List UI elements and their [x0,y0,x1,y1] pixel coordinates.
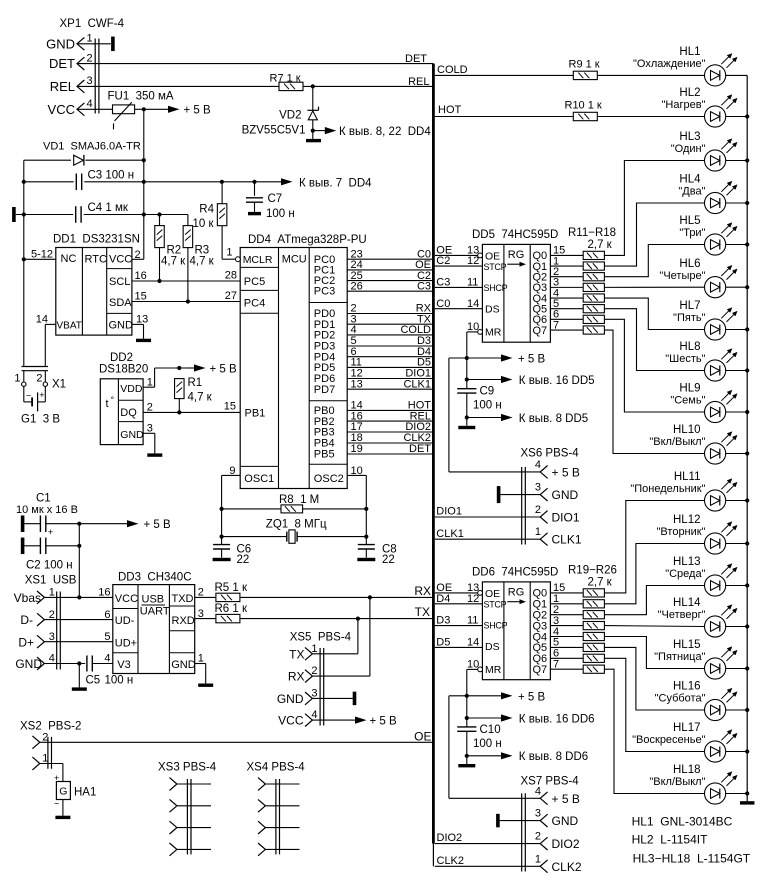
wire R15 to HL7 [604,298,704,329]
wire net OE bus to DD5 pin 13 [435,245,483,258]
wire HL15 to right rail [726,668,748,670]
wire R21 to HL13 [604,586,704,615]
svg-text:1: 1 [226,247,232,259]
wire DD4 pin 11 net D5 to bus [347,357,433,369]
wire net DIO2 bus to XS7 [435,832,540,844]
LED HL8 Шесть [665,341,736,381]
svg-text:HL3−HL18 L-1154GT: HL3−HL18 L-1154GT [633,852,751,866]
label C1 [16,493,78,517]
label DD3 pin5 [104,631,110,643]
svg-text:19: 19 [351,443,363,455]
ground bar C8 [357,558,375,561]
wire HL10 to right rail [726,453,748,455]
svg-text:2,7 к: 2,7 к [588,577,613,589]
svg-text:XP1 CWF-4: XP1 CWF-4 [60,18,125,30]
wire DD4 pin 17 net DIO2 to bus [347,421,433,433]
wire XS1 GND [44,661,85,665]
wire DD4 pin 3 net TX to bus [347,313,433,325]
power +5 В arrow (XS5) [352,716,397,728]
svg-text:R10 1 к: R10 1 к [565,99,602,111]
wire DD6 Q2 pin 2 [533,604,584,622]
wire XP1 VCC to fuse [77,108,113,110]
resistor R11 2,7 к [583,251,604,259]
capacitor C10 100 н [457,724,502,750]
LED HL11 Понедельник [630,471,736,511]
wire net C2 bus to DD5 pin 12 [435,255,483,267]
svg-text:TX: TX [289,647,304,661]
svg-text:R1: R1 [188,377,203,389]
ground bar XS5 [353,692,357,706]
wire net D3 bus to DD6 pin 11 [435,615,483,627]
ground bar C6 [213,558,231,561]
connector XS6 PBS-4 [521,447,582,546]
label R11-R18 [568,227,616,251]
svg-text:STCP: STCP [484,262,507,272]
svg-text:TXD: TXD [172,593,194,605]
common bar left of C2 [21,538,25,555]
wire DD1 pin 5-12 [24,248,56,260]
wire HL2 to right rail [726,116,748,118]
wire XS6 GND [500,494,540,496]
svg-text:HL10: HL10 [673,424,701,436]
svg-text:HL11: HL11 [674,471,701,483]
svg-text:GND: GND [46,36,75,51]
svg-text:+ 5 В: + 5 В [144,519,172,531]
wire R16 to HL8 [604,309,704,371]
svg-text:OE: OE [485,250,500,262]
svg-text:+ 5 В: + 5 В [518,354,546,366]
LED HL3 Один [671,131,737,171]
wire net RX to bus [240,584,434,600]
LED HL14 Четверг [658,597,737,637]
svg-text:2: 2 [147,402,153,414]
svg-text:PC4: PC4 [244,298,265,310]
svg-text:PB5: PB5 [314,449,335,461]
svg-text:HL17: HL17 [673,722,701,734]
svg-text:+ 5 В: + 5 В [184,105,212,117]
power tap К выв. 8, 22 DD4 [313,126,432,138]
svg-text:"Среда": "Среда" [665,568,705,580]
resistor R22 2,7 к [583,622,604,630]
svg-text:4: 4 [311,709,317,721]
svg-text:SCL: SCL [109,276,130,288]
svg-text:MR: MR [485,664,502,676]
wire R10 to HL2 [597,116,705,118]
wire HL11 to right rail [726,500,748,502]
svg-text:SHCP: SHCP [484,283,508,293]
LED HL2 Нагрев [662,87,737,127]
connector XS5 PBS-4 [277,632,352,728]
resistor R9 1 к [569,58,600,79]
svg-text:DET: DET [49,56,75,71]
IC DD6 74HC595D [472,567,558,680]
wire net REL left [77,85,281,87]
svg-text:C2 100 н: C2 100 н [26,560,73,572]
capacitor C8 22 [358,544,397,567]
svg-text:UART: UART [140,606,170,618]
wire HL16 to right rail [726,709,748,711]
svg-text:HL1: HL1 [679,46,700,58]
svg-text:+: + [54,773,59,783]
IC DD4 ATmega328P-PU [240,234,366,488]
wire XS1 GND down [78,664,80,688]
wire DD1 GND pin13 [132,314,148,339]
wire XS2 pin1 to HA1 [40,764,63,782]
resistor R23 2,7 к [583,632,604,640]
wire R13 to HL5 [604,245,704,277]
svg-text:12: 12 [467,593,479,605]
ground bar right rail [740,801,755,804]
svg-text:D+: D+ [18,635,34,649]
zener diode VD2 BZV55C5V1 [242,107,319,140]
svg-text:1: 1 [198,653,204,665]
svg-text:−: − [54,798,59,808]
svg-text:C7: C7 [268,193,283,205]
wire XS1 D+ to DD3 UD+ [44,641,112,643]
wire XS7 GND [500,820,541,822]
diode VD1 SMAJ6.0A-TR [43,141,141,166]
svg-text:DS: DS [485,304,500,316]
svg-text:HL7: HL7 [679,300,700,312]
svg-text:C3 100 н: C3 100 н [88,170,135,182]
wire HL13 to right rail [726,585,748,587]
svg-text:DS: DS [485,641,500,653]
svg-text:15: 15 [135,291,147,303]
power +5 В arrow (C1) [126,519,171,531]
svg-text:HL2: HL2 [679,87,700,99]
svg-text:10: 10 [467,321,479,333]
svg-text:VCC: VCC [278,714,304,728]
svg-text:12: 12 [467,255,479,267]
svg-text:C0: C0 [436,298,450,310]
svg-text:R11−R18: R11−R18 [568,227,616,239]
svg-text:CLK2: CLK2 [437,855,465,867]
resistor R18 2,7 к [583,326,604,334]
svg-text:HL1 GNL-3014BC: HL1 GNL-3014BC [632,814,733,828]
tap К выв. 8 DD5 [465,413,588,425]
wire net HOT to R10 [435,104,574,117]
svg-text:C1: C1 [36,493,51,505]
wire net DIO1 bus to XS6 [435,506,540,518]
svg-text:4: 4 [104,653,110,665]
power tap К выв. 7 DD4 [281,177,372,189]
svg-text:"Воскресенье": "Воскресенье" [632,734,705,746]
svg-text:DD2: DD2 [110,352,133,364]
svg-text:9: 9 [229,465,235,477]
svg-text:C3: C3 [417,280,431,292]
svg-text:4: 4 [87,98,93,110]
wire DD4 pin 5 net D3 to bus [347,335,433,347]
wire +5V vertical to DD1 VCC [132,109,144,259]
svg-text:14: 14 [36,314,48,326]
svg-text:XS4 PBS-4: XS4 PBS-4 [247,761,306,773]
svg-text:R9 1 к: R9 1 к [569,58,600,70]
svg-text:100 н: 100 н [473,738,502,750]
svg-text:HL12: HL12 [673,514,701,526]
wire R18 to HL10 [604,330,704,453]
svg-text:DIO2: DIO2 [437,832,463,844]
wire net REL right [303,76,434,89]
svg-text:MCU: MCU [282,254,307,266]
svg-text:2: 2 [311,665,317,677]
svg-text:К выв. 16 DD5: К выв. 16 DD5 [519,375,595,387]
wire DD6 +5V row [449,694,500,698]
wire DD6 Q3 pin 3 [533,615,584,633]
svg-text:DIO2: DIO2 [552,837,580,851]
svg-text:XS5 PBS-4: XS5 PBS-4 [290,632,352,644]
svg-text:7: 7 [553,319,559,331]
svg-text:VD1 SMAJ6.0A-TR: VD1 SMAJ6.0A-TR [43,141,141,153]
svg-text:CLK1: CLK1 [436,528,464,540]
svg-text:HL4: HL4 [679,174,701,186]
wire HL12 to right rail [726,543,748,545]
svg-text:"Вторник": "Вторник" [657,526,706,538]
wire DD5 Q3 pin 3 [533,277,584,295]
svg-text:1: 1 [14,372,20,384]
svg-text:OE: OE [485,588,500,600]
wire +5V down to XS7 [449,696,540,799]
wire DD5 Q5 pin 5 [533,298,584,316]
wire DD5 MR rail bottom [466,393,468,426]
ground bar XS1 [72,687,87,690]
svg-text:HL3: HL3 [679,131,700,143]
svg-text:4,7 к: 4,7 к [188,391,213,403]
svg-text:Vbas: Vbas [14,591,41,605]
svg-text:HL6: HL6 [679,258,700,270]
svg-text:NC: NC [61,253,77,265]
svg-text:4: 4 [535,459,541,471]
svg-text:R4: R4 [199,204,214,216]
svg-text:"Один": "Один" [671,143,706,155]
svg-text:RG: RG [508,249,525,261]
svg-text:К выв. 8 DD6: К выв. 8 DD6 [519,751,588,763]
svg-text:CLK1: CLK1 [552,533,582,547]
wire HL6 to right rail [726,286,748,288]
svg-text:C4 1 мк: C4 1 мк [88,202,129,214]
power +5 В arrow (DD5) [500,354,546,366]
svg-text:FU1 350 мА: FU1 350 мА [108,91,174,103]
wire R17 to HL9 [604,319,704,412]
wire HL17 to right rail [726,751,748,753]
svg-text:HL9: HL9 [679,383,700,395]
resistor R1 4,7 к [175,377,213,413]
svg-text:REL: REL [50,79,75,94]
wire DD4 pin 24 net OE to bus [347,259,433,271]
svg-text:STCP: STCP [484,599,507,609]
svg-text:Q7: Q7 [533,325,548,337]
svg-text:D5: D5 [436,637,450,649]
wire net C0 bus to DD5 pin 14 [435,298,483,310]
label DD1 pin 2 [135,249,141,261]
wire DD4 pin 18 net CLK2 to bus [347,432,433,444]
svg-text:HL16: HL16 [673,681,701,693]
svg-text:XS6 PBS-4: XS6 PBS-4 [521,447,580,459]
wire DD6 Q5 pin 5 [533,637,584,655]
wire R23 to HL15 [604,637,704,669]
wire net SCL (DD1 pin16 to DD4 PC5 pin28) [132,269,240,283]
svg-text:"Четверг": "Четверг" [658,609,706,621]
svg-text:CLK2: CLK2 [552,860,582,874]
svg-text:HL13: HL13 [673,556,701,568]
svg-text:3: 3 [535,808,541,820]
svg-text:VCC: VCC [115,593,138,605]
svg-text:GND: GND [277,692,304,706]
svg-text:VBAT: VBAT [57,321,82,332]
svg-text:OE: OE [414,729,431,743]
wire VD1 row [24,158,146,162]
wire DD3 TXD pin2 to R5 [195,587,216,599]
svg-text:XS7 PBS-4: XS7 PBS-4 [521,775,580,787]
tap К выв. 8 DD6 [465,751,588,763]
capacitor C6 22 [213,544,251,567]
svg-text:REL: REL [408,76,429,88]
label HL1 type [632,814,733,828]
power +5 В arrow (DD6) [500,691,546,703]
bubble DD4 MCLR pin1 [236,257,241,262]
wire DD3 RXD pin3 to R6 [195,608,216,620]
wire R25 to HL17 [604,658,704,751]
svg-text:3: 3 [49,631,55,643]
resistor R10 1 к [565,99,602,120]
svg-text:R19−R26: R19−R26 [568,565,617,577]
svg-text:C2: C2 [436,255,450,267]
capacitor C9 100 н [457,386,502,412]
svg-text:"Два": "Два" [678,186,705,198]
resistor R21 2,7 к [583,611,604,619]
ground bar XS7 [496,814,500,828]
svg-text:RTC: RTC [85,254,107,266]
LED HL1 Охлаждение [633,46,737,86]
svg-text:−: − [26,390,31,400]
capacitor C1 10 мк [24,515,126,538]
svg-text:2: 2 [49,609,55,621]
tap К выв. 16 DD6 [465,713,595,725]
svg-text:PC3: PC3 [314,286,335,298]
ground bar DD3 [198,684,213,687]
svg-text:100 н: 100 н [266,208,295,220]
IC DD1 DS3231SN [53,233,140,335]
wire DD4 OSC2 pin10 [347,465,368,545]
svg-text:RG: RG [508,587,525,599]
LED HL10 Вкл/Выкл [649,424,736,464]
wire R22 to HL14 [604,625,704,628]
svg-text:HOT: HOT [438,104,462,116]
svg-text:"Охлаждение": "Охлаждение" [633,58,706,70]
svg-text:V3: V3 [117,659,130,671]
svg-text:+: + [39,390,44,400]
svg-text:3: 3 [147,423,153,435]
wire DD2 GND pin3 [143,423,155,454]
wire fuse to +5V node [135,107,146,111]
wire net SDA (DD1 pin15 to DD4 PC4 pin27) [132,290,240,304]
resistor R16 2,7 к [583,305,604,313]
wire DD6 Q7 pin 7 [533,659,584,677]
wire DD4 pin 13 net CLK1 to bus [347,378,433,390]
wire DD1 VBAT pin14 [36,314,56,367]
wire DD3 GND pin1 [195,653,206,684]
wire DD4 pin 16 net REL to bus [347,410,433,422]
wire XS5 VCC [312,719,352,721]
IC DD2 DS18B20 [99,352,148,445]
svg-text:22: 22 [237,554,250,566]
svg-text:DET: DET [409,443,431,455]
svg-text:XS1 USB: XS1 USB [25,575,77,587]
svg-text:4: 4 [49,653,55,665]
wire net CLK1 bus to XS6 [435,528,540,540]
svg-text:DET: DET [405,53,427,65]
svg-text:USB: USB [142,594,165,606]
resistor R6 1 к [215,603,248,623]
wire DD4 pin 2 net RX to bus [347,303,433,315]
svg-text:R5 1 к: R5 1 к [215,582,248,594]
wire HL14 to right rail [726,626,748,628]
svg-text:VCC: VCC [48,102,75,117]
ground bar XS6 [497,486,501,503]
svg-text:К выв. 8 DD5: К выв. 8 DD5 [519,413,588,425]
ground bar HA1 [55,816,70,819]
svg-text:HL14: HL14 [673,597,701,609]
wire XS5 GND [312,697,353,699]
svg-text:1: 1 [535,526,541,538]
crystal ZQ1 8 МГц [222,518,367,543]
bus main vertical [432,64,435,867]
svg-text:MCLR: MCLR [243,254,273,266]
svg-text:HL2 L-1154IT: HL2 L-1154IT [632,832,708,846]
svg-text:"Вкл/Выкл": "Вкл/Выкл" [649,776,705,788]
svg-text:4: 4 [535,785,541,797]
svg-text:10: 10 [351,465,363,477]
wire right cathode rail [745,75,749,801]
svg-text:HL15: HL15 [673,639,701,651]
svg-text:CLK1: CLK1 [403,378,431,390]
connector XS4 PBS-4 [247,761,306,856]
svg-text:К выв. 8, 22 DD4: К выв. 8, 22 DD4 [339,126,431,138]
svg-text:"Шесть": "Шесть" [665,353,705,365]
LED HL7 Пять [673,300,737,340]
svg-text:C10: C10 [480,724,501,736]
wire DD5 Q7 pin 7 [533,319,584,337]
wire HL7 to right rail [726,329,748,331]
svg-text:HL8: HL8 [679,341,700,353]
svg-text:R8 1 М: R8 1 М [279,494,319,506]
svg-text:RX: RX [288,670,305,684]
svg-text:К выв. 16 DD6: К выв. 16 DD6 [519,713,595,725]
svg-text:TX: TX [415,605,430,619]
resistor R20 2,7 к [583,600,604,608]
svg-text:Q7: Q7 [533,664,548,676]
svg-text:13: 13 [136,314,148,326]
wire DD4 pin 14 net HOT to bus [347,400,433,412]
svg-text:XS3 PBS-4: XS3 PBS-4 [158,761,217,773]
svg-text:"Нагрев": "Нагрев" [662,99,706,111]
svg-text:1: 1 [535,853,541,865]
wire R14 to HL6 [604,286,704,288]
svg-text:2: 2 [87,52,93,64]
capacitor C2 100 н [24,538,81,572]
label R19-R26 [568,565,617,589]
svg-text:VCC: VCC [109,254,132,266]
svg-text:GND: GND [120,429,144,441]
svg-text:UD+: UD+ [115,637,137,649]
svg-text:+ 5 B: + 5 B [370,716,398,728]
svg-text:14: 14 [467,298,479,310]
svg-text:+ 5 В: + 5 В [210,363,238,375]
resistor R24 2,7 к [583,643,604,651]
wire DD5 MR pin10 [467,321,483,389]
svg-text:3: 3 [87,75,93,87]
svg-text:2: 2 [535,831,541,843]
svg-text:C3: C3 [436,277,450,289]
